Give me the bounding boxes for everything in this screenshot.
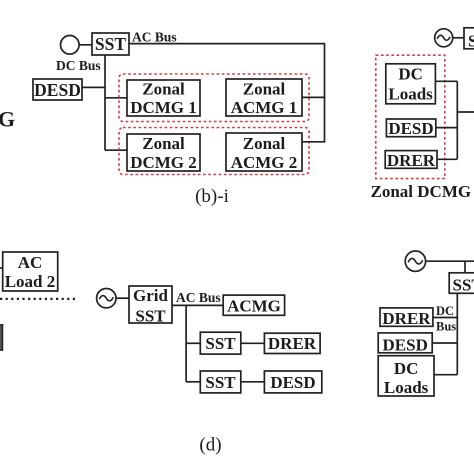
svg-text:SST: SST — [95, 34, 126, 54]
svg-text:DRER: DRER — [382, 309, 431, 328]
svg-text:ACMG 1: ACMG 1 — [231, 98, 298, 117]
svg-text:Zonal: Zonal — [243, 80, 286, 99]
wire: AC bus vertical drop on right — [324, 44, 326, 142]
svg-text:Grid: Grid — [133, 286, 168, 305]
ACMG box — [223, 295, 284, 315]
svg-text:Loads: Loads — [388, 85, 433, 104]
svg-text:ACMG 2: ACMG 2 — [231, 153, 298, 172]
DESD box — [386, 119, 435, 138]
SST box (cropped at right edge) — [464, 28, 474, 51]
AC source circle (grid) — [61, 36, 80, 55]
wire: DC bus to Zonal DCMG 2 — [105, 149, 127, 151]
DRER box — [385, 151, 437, 170]
DESD box — [264, 371, 321, 393]
svg-text:SST: SST — [453, 276, 474, 295]
red dashed zone 1 boundary — [119, 74, 309, 122]
red dashed zonal DCMG boundary — [376, 55, 445, 178]
wire: DC bus to Zonal DCMG 1 — [105, 97, 127, 99]
svg-text:ACMG: ACMG — [227, 297, 281, 316]
svg-text:G: G — [0, 107, 15, 132]
svg-text:SST: SST — [205, 334, 236, 353]
wire: DC bus vertical from SST — [104, 55, 106, 150]
svg-text:DESD: DESD — [383, 336, 428, 355]
svg-text:Zonal DCMG: Zonal DCMG — [371, 182, 472, 201]
svg-text:DC: DC — [398, 65, 423, 84]
wire: AC bus to ACMG — [172, 304, 223, 306]
svg-text:(b)-i: (b)-i — [195, 186, 229, 207]
svg-text:DESD: DESD — [388, 119, 433, 138]
SST converter box — [92, 33, 129, 55]
wire: vertical drop to SST — [464, 261, 466, 273]
SST box (upper) — [200, 332, 241, 354]
svg-text:DCMG 1: DCMG 1 — [130, 98, 197, 117]
wire: source to right edge — [426, 260, 474, 262]
cropped dark box at left edge — [0, 325, 3, 350]
wire: DESD to bus — [436, 127, 458, 129]
svg-text:DESD: DESD — [270, 373, 315, 392]
wire: Zonal ACMG 2 to AC bus vertical — [302, 141, 325, 143]
wire: source to SST (cropped) — [453, 37, 464, 39]
wire: DC bus vertical (right of zone) — [456, 81, 458, 159]
wire: DRER to bus — [433, 317, 457, 319]
DRER box — [380, 308, 433, 328]
DESD box — [33, 79, 82, 100]
wire: SST to DRER — [241, 342, 265, 344]
Zonal ACMG 1 box — [226, 79, 302, 117]
wire: DESD to DC bus — [82, 86, 105, 88]
svg-text:AC Bus: AC Bus — [176, 290, 221, 305]
wire: source to SST — [79, 44, 92, 46]
DC Loads box — [386, 64, 436, 104]
dotted separator line — [0, 298, 77, 300]
svg-text:DRER: DRER — [268, 334, 317, 353]
wire: DC bus vertical from SST — [456, 293, 458, 374]
wire: DC Loads to bus — [435, 80, 457, 82]
svg-text:Loads: Loads — [384, 378, 429, 397]
svg-text:SST: SST — [205, 373, 236, 392]
wire: DC Loads to bus — [434, 374, 457, 376]
wire: DESD to bus — [432, 342, 457, 344]
wire: Zonal ACMG 1 to AC bus vertical — [302, 96, 325, 98]
svg-text:DC Bus: DC Bus — [56, 58, 101, 73]
svg-text:Bus: Bus — [436, 320, 456, 334]
Zonal DCMG 1 box — [127, 80, 200, 118]
svg-text:AC Bus: AC Bus — [132, 30, 177, 45]
wire: SST to DESD — [241, 381, 265, 383]
AC source circle with sine — [405, 251, 425, 271]
DESD box — [378, 333, 432, 355]
svg-text:DESD: DESD — [34, 80, 81, 100]
svg-text:DRER: DRER — [387, 151, 436, 170]
red dashed zone 2 boundary — [119, 128, 309, 175]
Zonal DCMG 2 box — [127, 134, 200, 172]
svg-text:DC: DC — [394, 359, 419, 378]
wire: bus to SST (upper) — [186, 342, 200, 344]
svg-text:(d): (d) — [199, 435, 221, 456]
svg-text:Load 2: Load 2 — [5, 272, 56, 291]
svg-text:DC: DC — [436, 304, 454, 318]
Zonal ACMG 2 box — [226, 133, 302, 172]
svg-text:Zonal: Zonal — [142, 134, 185, 153]
wire stub into AC Load 2 — [0, 267, 3, 269]
wire: AC bus horizontal — [129, 43, 325, 45]
label: DC / Bus — [436, 304, 456, 334]
wire: bus to SST (lower) — [186, 381, 200, 383]
Grid SST box — [129, 286, 172, 326]
AC source circle with sine — [435, 29, 453, 47]
svg-text:AC: AC — [18, 253, 43, 272]
DC Loads box — [378, 356, 434, 397]
svg-text:SST: SST — [468, 32, 474, 51]
SST box (cropped at right edge) — [449, 273, 474, 295]
wire: AC bus vertical — [185, 305, 187, 381]
AC Load 2 box — [3, 252, 58, 291]
AC source circle with sine — [97, 289, 116, 308]
wire: DRER to bus — [437, 158, 457, 160]
svg-text:Zonal: Zonal — [243, 134, 286, 153]
SST box (lower) — [200, 371, 241, 393]
svg-text:Zonal: Zonal — [142, 80, 185, 99]
wire: source to Grid SST — [116, 297, 129, 299]
svg-text:SST: SST — [135, 307, 166, 326]
svg-text:DCMG 2: DCMG 2 — [130, 153, 197, 172]
DRER box — [264, 333, 320, 353]
wire: bus to right edge — [457, 111, 474, 113]
